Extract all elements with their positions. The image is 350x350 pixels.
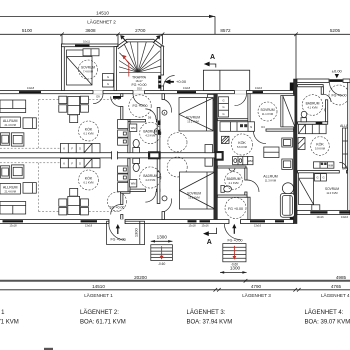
KOK circle lag1 (79, 170, 99, 190)
svg-text:SOVRUM: SOVRUM (81, 66, 95, 70)
svg-text:7.4 KVM: 7.4 KVM (83, 70, 93, 74)
circle marker lower corridor (167, 157, 187, 177)
hall FG circle lower (108, 192, 127, 211)
svg-text:4.1 KVM: 4.1 KVM (229, 181, 239, 185)
right exterior steps (223, 244, 246, 267)
section marker A bottom (203, 228, 217, 246)
bottom windows left block (3, 220, 285, 227)
svg-text:FG +0.00: FG +0.00 (228, 207, 243, 211)
svg-text:LÄGENHET 2:: LÄGENHET 2: (80, 309, 119, 316)
wall hall/sovrum2 lower with door (157, 158, 171, 219)
svg-text:KÖK: KÖK (238, 141, 246, 145)
svg-text:SOVRUM: SOVRUM (186, 116, 200, 120)
svg-text:2700: 2700 (135, 28, 146, 33)
svg-text:G: G (322, 176, 324, 180)
dashed zone lines lag1 (0, 163, 121, 212)
washbasin lag4 (324, 108, 327, 112)
wall hall/kitchen lower (111, 191, 130, 220)
svg-text:1300: 1300 (230, 265, 241, 270)
svg-text:LÄGENHET 1: LÄGENHET 1 (84, 292, 113, 298)
svg-text:FG +0.00: FG +0.00 (110, 238, 125, 242)
kitchen counter lag1 (60, 159, 100, 168)
wall kitchen/bath lower (128, 158, 130, 191)
svg-text:13x18: 13x18 (85, 224, 93, 228)
svg-text:D4: D4 (261, 125, 265, 129)
svg-text:D9: D9 (96, 94, 100, 98)
svg-text:ALLRUM: ALLRUM (3, 119, 18, 123)
svg-text:+0.00: +0.00 (176, 79, 187, 84)
svg-text:FG +0.00: FG +0.00 (132, 104, 147, 108)
svg-text:D: D (79, 147, 81, 151)
svg-text:LÄGENHET 1: LÄGENHET 1 (0, 309, 5, 316)
right entry door lag3 bottom (224, 219, 242, 242)
svg-text:KÖK: KÖK (85, 128, 93, 132)
wardrobes lag4 (315, 174, 327, 181)
bedside table lag4 (312, 205, 320, 212)
dining lag3 (264, 138, 293, 169)
svg-text:21.4 KVM: 21.4 KVM (5, 189, 16, 193)
svg-text:D: D (79, 162, 81, 166)
svg-text:13x18: 13x18 (27, 86, 35, 90)
svg-text:LÄGENHET 3: LÄGENHET 3 (242, 292, 271, 298)
dining table lag1 (59, 188, 89, 215)
kitchen counter lag2 (60, 144, 100, 153)
svg-text:4790: 4790 (251, 284, 262, 289)
tower closet boxes (103, 74, 114, 88)
bottom edge smudge (44, 348, 53, 350)
svg-text:1300: 1300 (133, 227, 138, 237)
svg-text:11.3 KVM: 11.3 KVM (265, 178, 276, 182)
svg-text:G: G (316, 176, 318, 180)
window 13x18 top-middle (177, 91, 196, 93)
shaft at party wall 1 (215, 151, 224, 161)
stove hatched lag4 (298, 138, 305, 150)
counter B lag4 (314, 162, 334, 168)
svg-text:D6: D6 (148, 116, 152, 120)
svg-text:A: A (207, 239, 212, 246)
left exterior steps (151, 245, 173, 266)
dimension line 14510/4790/4765 (0, 284, 350, 292)
svg-text:13.2 KVM: 13.2 KVM (188, 195, 199, 199)
svg-text:SOVRUM: SOVRUM (261, 108, 275, 112)
door D10 opening from stair (133, 87, 145, 106)
svg-text:SOVRUM: SOVRUM (187, 192, 201, 196)
svg-text:BADRUM: BADRUM (143, 130, 157, 134)
stair walkline (red, up direction) (122, 55, 129, 77)
left landing vertical dim 1300 (133, 222, 139, 245)
svg-text:11.1 KVM: 11.1 KVM (262, 112, 273, 116)
svg-text:ALLRUM: ALLRUM (263, 175, 278, 179)
svg-text:13x16: 13x16 (254, 224, 262, 228)
bath bottom wall lower with door (130, 189, 160, 202)
FG circle lag4 (329, 85, 349, 105)
tall cabinets lag1 (118, 166, 128, 192)
sofa lag4 at right edge (343, 128, 350, 168)
sovrum wall lag4 with door (298, 162, 348, 173)
hall bottom wall lag3 (248, 197, 250, 219)
bath walls lag3 (217, 166, 259, 197)
svg-text:13x16: 13x16 (255, 86, 263, 90)
svg-text:WM: WM (131, 182, 136, 186)
sofa lag3 + table (280, 183, 294, 218)
svg-text:-0.60: -0.60 (158, 262, 165, 266)
wardrobes at party wall (205, 145, 213, 167)
stove hatched lag3 (222, 136, 230, 143)
tall cabinets K/F lag2 (118, 120, 128, 146)
washbasin lag3 (229, 168, 235, 171)
hall counter boxes lag3 (220, 122, 255, 132)
svg-text:G: G (107, 75, 109, 79)
kitchen counter lag3 + WM (233, 157, 253, 165)
svg-text:13x18: 13x18 (183, 86, 191, 90)
svg-text:5205: 5205 (330, 28, 341, 33)
hall walls lag3 (217, 119, 250, 121)
svg-text:BADRUM: BADRUM (227, 177, 241, 181)
kitchen counter A lag4 (299, 124, 327, 133)
top dimension line 14510 (0, 10, 215, 34)
washbasin (154, 129, 157, 135)
SOVRUM label lag4 (325, 187, 339, 195)
svg-text:5.6 KVM: 5.6 KVM (237, 145, 247, 149)
FG circle lag3 (225, 198, 246, 219)
svg-text:11.0 KVM: 11.0 KVM (326, 191, 337, 195)
apartment labels under dimension line (84, 292, 350, 298)
svg-text:8572: 8572 (220, 28, 231, 33)
svg-text:TRAPPA: TRAPPA (132, 76, 147, 80)
shaft between baths (148, 151, 161, 159)
right edge wall lag4 (348, 82, 350, 210)
circle marker upper corridor (168, 133, 187, 152)
party wall 1 (214, 94, 218, 220)
dashed zone lines lag2 (0, 100, 121, 149)
svg-text:13x18: 13x18 (9, 224, 17, 228)
svg-text:BOA: 61.71 KVM: BOA: 61.71 KVM (80, 320, 126, 326)
heavy ground line 20200 (0, 275, 350, 283)
sovrum3 bottom wall with door D4 (250, 125, 293, 144)
party wall 2 (294, 79, 298, 224)
svg-text:21.4 KVM: 21.4 KVM (5, 123, 16, 127)
tower bedroom wardrobe (83, 49, 99, 56)
armchairs lag1 (1, 165, 24, 178)
svg-text:5.9 KVM: 5.9 KVM (315, 147, 325, 151)
tv bench (23, 118, 36, 129)
radiator under window (113, 96, 121, 99)
black pillar top at party wall 2 (290, 83, 294, 91)
svg-text:1300: 1300 (157, 234, 168, 239)
living room lag2: sofa (0, 100, 26, 113)
bath lag1: toilet (133, 158, 140, 171)
svg-text:G: G (222, 105, 224, 109)
entry porch block top (203, 70, 249, 90)
svg-text:14510: 14510 (92, 284, 105, 289)
svg-text:G: G (222, 99, 224, 103)
svg-text:WM: WM (131, 126, 136, 130)
svg-text:BOA: 39.07 KVM: BOA: 39.07 KVM (305, 320, 350, 326)
room label SOVRUM 7.4 KVM (79, 60, 98, 79)
living room lag1: sofa (0, 202, 26, 215)
svg-text:LÄGENHET 3:: LÄGENHET 3: (187, 309, 226, 316)
svg-text:13.2 KVM: 13.2 KVM (187, 119, 198, 123)
svg-text:FG +0.00: FG +0.00 (227, 238, 242, 242)
svg-text:20200: 20200 (134, 275, 147, 280)
svg-text:ALLRUM: ALLRUM (3, 185, 18, 189)
tv bench lag1 (23, 183, 36, 194)
wardrobe column G (219, 97, 229, 117)
KOK circle lag4 (311, 137, 330, 156)
bed sovrum3 (281, 96, 295, 127)
svg-text:13x16: 13x16 (201, 224, 209, 228)
BADRUM circle lag2 (140, 122, 161, 143)
svg-text:D10: D10 (137, 87, 142, 91)
left steps dim 1300 (151, 234, 173, 242)
outer top wall (left block + lag3) (0, 91, 294, 94)
svg-text:FG +0.00: FG +0.00 (331, 94, 346, 98)
washbasin lag1 (157, 171, 160, 177)
svg-text:N: N (250, 125, 252, 129)
KOK circle lag2 (79, 121, 99, 141)
door from porch into lag3 (235, 90, 247, 105)
right steps dim 1300 (220, 265, 247, 273)
svg-text:K: K (63, 162, 65, 166)
svg-text:LÄGENHET 4: LÄGENHET 4 (321, 292, 350, 298)
svg-text:5100: 5100 (22, 28, 33, 33)
svg-text:LÄGENHET 4:: LÄGENHET 4: (305, 309, 344, 316)
bath walls lag4 (298, 85, 331, 125)
svg-text:4765: 4765 (331, 284, 342, 289)
toilet lag3 (221, 186, 232, 193)
black pillar bottom at party wall 2 (290, 215, 294, 220)
svg-text:WM: WM (248, 159, 253, 163)
svg-text:SOVRUM: SOVRUM (325, 187, 339, 191)
window 13x16 top-right of lag3 (253, 91, 264, 93)
toilet lag4 (301, 111, 307, 122)
svg-text:BADRUM: BADRUM (143, 174, 157, 178)
stair tower outer walls (62, 39, 165, 90)
SOVRUM circle lag3 (258, 102, 277, 121)
svg-text:6.1 KVM: 6.1 KVM (84, 132, 94, 136)
armchairs lag2 (1, 133, 24, 146)
svg-text:4985: 4985 (336, 275, 347, 280)
dining table lag2 (59, 96, 89, 122)
svg-text:A: A (210, 54, 215, 61)
svg-text:6.1 KVM: 6.1 KVM (84, 181, 94, 185)
svg-text:4.2 KVM: 4.2 KVM (145, 178, 155, 182)
section marker A top (204, 54, 216, 68)
BADRUM circle lag4 (302, 95, 323, 116)
wall hall/sovrum2 with door (157, 94, 171, 153)
top wall lag4 with entry (297, 79, 350, 95)
bottom area text columns (0, 309, 350, 326)
bottom wall lag4 (297, 210, 350, 219)
svg-text:KÖK: KÖK (85, 177, 93, 181)
bottom outer wall left block + lag3 (0, 220, 294, 224)
bath top wall with door D6 (130, 109, 160, 122)
svg-text:4.1 KVM: 4.1 KVM (308, 105, 318, 109)
svg-text:K: K (63, 147, 65, 151)
svg-text:13x16: 13x16 (316, 215, 324, 219)
svg-text:WM: WM (328, 163, 333, 167)
stair fan (119, 42, 161, 72)
svg-text:G: G (222, 112, 224, 116)
svg-text:14510: 14510 (96, 10, 109, 15)
opening in mid wall (112, 151, 118, 159)
svg-text:FG +0.00: FG +0.00 (109, 206, 124, 210)
washing machine lag1 (130, 180, 137, 188)
top dimension line segments 5100/3608/2700/8572/5205 (0, 28, 350, 79)
shower dark mark (158, 121, 161, 126)
svg-text:13x18: 13x18 (188, 224, 196, 228)
left landing (107, 219, 145, 244)
svg-text:BOA: 37.94 KVM: BOA: 37.94 KVM (187, 320, 233, 326)
bed lag4 (299, 173, 314, 205)
entry level mark (332, 68, 343, 78)
washing machine (130, 124, 137, 132)
svg-text:G: G (107, 82, 109, 86)
window 13x18 top-left (19, 91, 41, 93)
wall hall/kitchen (111, 94, 130, 122)
svg-text:3608: 3608 (85, 28, 96, 33)
svg-text:LÄGENHET 2: LÄGENHET 2 (87, 18, 116, 24)
door D9 opening (93, 90, 103, 103)
KOK circle lag3 (231, 134, 252, 155)
svg-text:4.2 KVM: 4.2 KVM (145, 133, 155, 137)
BADRUM circle lag1 (140, 167, 161, 188)
nightstand sovrum2 (208, 95, 215, 101)
BADRUM circle lag3 (225, 172, 243, 190)
svg-text:10x11: 10x11 (83, 39, 90, 43)
bed sovrum2 upper (179, 98, 213, 132)
hall FG circle (129, 95, 151, 117)
tower bedroom: bed (67, 50, 93, 85)
mid floor wall of left block (0, 153, 216, 158)
entrance arrow +0.00 (164, 79, 187, 84)
ALLRUM label box lag1 (0, 184, 20, 195)
roof arrows on stair bay (120, 35, 160, 43)
svg-text:±0.00: ±0.00 (332, 68, 343, 73)
wall kitchen/bath (128, 122, 130, 153)
svg-text:BADRUM: BADRUM (306, 102, 320, 106)
svg-text:KÖK: KÖK (316, 143, 324, 147)
ALLRUM label box lag2 (0, 117, 20, 128)
bath lag2: toilet (133, 139, 140, 152)
bed sovrum2 lower (180, 172, 215, 209)
svg-text:FG +0.00: FG +0.00 (131, 83, 146, 87)
svg-text:BOA: 61.71 KVM: BOA: 61.71 KVM (0, 320, 19, 326)
svg-text:D6: D6 (342, 167, 346, 171)
svg-text:13x16: 13x16 (341, 215, 349, 219)
main entrance door in tower right wall (158, 76, 174, 89)
